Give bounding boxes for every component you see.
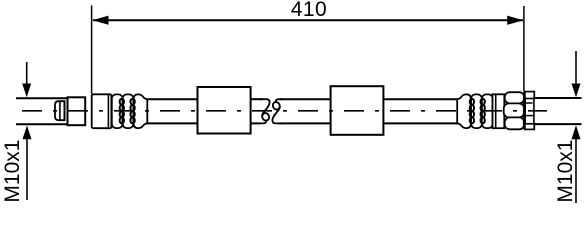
svg-text:M10x1: M10x1 xyxy=(1,140,24,203)
svg-text:410: 410 xyxy=(291,0,327,21)
svg-text:M10x1: M10x1 xyxy=(554,140,577,203)
